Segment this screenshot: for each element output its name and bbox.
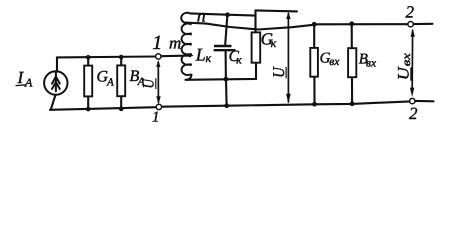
wire C_K bottom drop bbox=[225, 51, 227, 79]
resistor box G_K bbox=[252, 32, 261, 62]
inductor L_K coil loops bbox=[181, 13, 191, 80]
junction dot at C_K top on line A bbox=[225, 12, 230, 17]
label B_A bbox=[130, 68, 145, 88]
svg-text:U: U bbox=[141, 78, 158, 89]
svg-text:L: L bbox=[195, 44, 206, 64]
svg-text:U: U bbox=[269, 66, 288, 77]
svg-text:1: 1 bbox=[152, 110, 160, 126]
svg-text:к: к bbox=[206, 51, 212, 65]
junction dot G_vx bottom bbox=[312, 102, 317, 107]
svg-text:к: к bbox=[271, 36, 277, 50]
wire bottom bus right stub after terminal 2 bbox=[415, 100, 434, 103]
coil tap m arrowhead bbox=[189, 54, 194, 58]
label U rotated bbox=[269, 66, 288, 78]
label C_K bbox=[229, 48, 243, 67]
junction dot coil bottom line bbox=[224, 77, 229, 82]
wire B_A top stub bbox=[120, 57, 122, 65]
svg-text:m: m bbox=[169, 33, 181, 52]
wire node 1 to coil tap m bbox=[161, 55, 190, 58]
resistor box G_A bbox=[84, 66, 92, 97]
wire top-left bus from current source to node 1 bbox=[57, 55, 156, 58]
svg-text:вх: вх bbox=[329, 56, 340, 68]
resistor box G_vx bbox=[310, 48, 318, 77]
wire line B over voltage arrow U bbox=[256, 10, 298, 11]
current source I_A bbox=[44, 71, 67, 94]
node 2 bottom terminal circle bbox=[410, 98, 415, 103]
wire vertical V1 down to G_K box bbox=[254, 10, 256, 32]
wire terminal 2 top right stub bbox=[413, 23, 432, 25]
svg-text:вх: вх bbox=[366, 58, 377, 70]
wire B_vx bottom stub bbox=[351, 77, 353, 104]
svg-text:вх: вх bbox=[401, 52, 413, 66]
label L_K bbox=[195, 44, 212, 65]
wire C_K bottom line to bottom bus bbox=[225, 79, 228, 106]
wire current source bottom stub bbox=[51, 95, 56, 110]
label U_vx rotated bbox=[396, 52, 414, 81]
svg-text:A: A bbox=[24, 76, 33, 90]
svg-text:U: U bbox=[396, 66, 413, 81]
svg-text:1: 1 bbox=[152, 32, 162, 54]
junction dot B_A bottom bbox=[119, 107, 124, 112]
svg-text:к: к bbox=[236, 55, 242, 67]
label G_K bbox=[261, 30, 277, 50]
label B_vx bbox=[359, 51, 377, 69]
voltage arrow U across tank bbox=[286, 12, 291, 104]
wire G_A bottom stub bbox=[87, 96, 89, 109]
label U_1 rotated bbox=[141, 78, 158, 89]
node 1 bottom terminal circle bbox=[156, 104, 161, 109]
wire bottom bus right section bbox=[162, 101, 410, 106]
node 1 top terminal circle bbox=[156, 54, 161, 59]
wire tank top line A coil top to G_K corner bbox=[190, 13, 256, 15]
junction dot B_vx top bbox=[349, 21, 354, 26]
svg-text:I: I bbox=[17, 68, 25, 87]
svg-text:2: 2 bbox=[409, 104, 418, 123]
node 2 top terminal circle bbox=[408, 22, 413, 27]
wire G_K bottom to coil bottom line bbox=[186, 63, 257, 80]
label I_A bbox=[16, 68, 34, 90]
voltage arrow U_vx between terminals 2-2 bbox=[410, 28, 415, 97]
capacitor C_K plates bbox=[214, 46, 236, 50]
wire G_vx bottom stub bbox=[313, 77, 315, 105]
junction dot G_vx top bbox=[312, 22, 317, 27]
junction dot bottom bus below C_K bbox=[224, 103, 229, 108]
wire B_vx top stub bbox=[351, 24, 353, 48]
junction dot G_A top bbox=[86, 55, 91, 60]
wire tap n bus to terminal 2 bbox=[184, 23, 408, 30]
wire bottom bus left section bbox=[50, 107, 156, 110]
junction dot B_vx bottom bbox=[350, 101, 355, 106]
wire C_K top drop bbox=[225, 15, 227, 45]
resistor box B_vx bbox=[348, 48, 356, 77]
svg-text:n: n bbox=[197, 6, 206, 26]
svg-text:A: A bbox=[106, 77, 114, 89]
svg-text:2: 2 bbox=[406, 3, 415, 22]
label G_vx bbox=[320, 50, 341, 68]
junction dot B_A top bbox=[119, 55, 124, 60]
resistor box B_A bbox=[117, 65, 125, 96]
wire G_vx top stub bbox=[313, 24, 315, 48]
label G_A bbox=[97, 69, 115, 89]
wire G_A top stub bbox=[87, 57, 89, 65]
wire B_A bottom stub bbox=[120, 96, 122, 109]
voltage arrow U_a between nodes 1-1 bbox=[156, 60, 161, 105]
junction dot G_A bottom bbox=[86, 107, 91, 112]
wire current source top stub bbox=[56, 57, 58, 71]
